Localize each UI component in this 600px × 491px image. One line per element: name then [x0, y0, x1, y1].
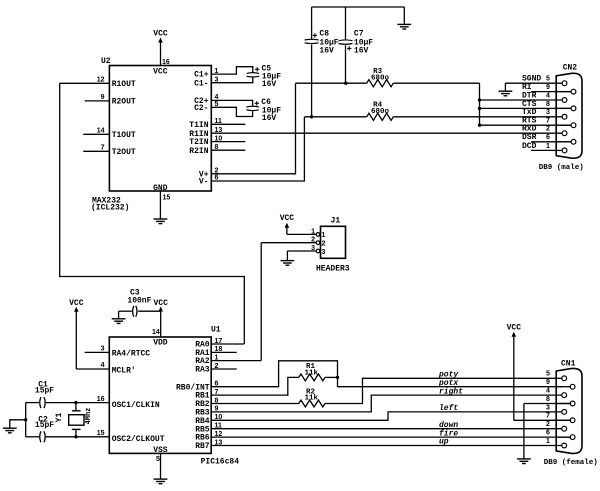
wire C3 ground stem [118, 311, 120, 318]
svg-text:U1: U1 [211, 326, 221, 335]
wire R1 to potx node [325, 376, 338, 378]
svg-text:1: 1 [311, 228, 315, 235]
wire DSR stub to CN2 pin6 [531, 141, 571, 143]
svg-text:15: 15 [97, 430, 105, 437]
wire U2 pin11 T1IN stub [211, 123, 245, 125]
wire U2 pin4 C2+ to C6 [211, 100, 252, 105]
wire CN1 pin8 to ground [523, 404, 525, 459]
wire U1 pin3 RA4 stub [85, 351, 110, 353]
wire R4 to CN2 TxD pin3 [393, 116, 562, 118]
resistor R2 11k [299, 400, 325, 407]
wire U1 RB3 jog to right CN1 pin4 [211, 395, 562, 412]
wire ground stem top right [403, 7, 405, 24]
VCC symbol at U1 MCLR [69, 299, 84, 369]
svg-text:15pF: 15pF [35, 386, 54, 395]
wire U1 RA3 stub [211, 368, 237, 370]
svg-text:5: 5 [546, 371, 550, 378]
wire J1 pin2 to U1 RA2 vertical [260, 243, 262, 361]
svg-text:U2: U2 [101, 57, 111, 66]
wire U2 pin7 T2OUT stub [83, 150, 109, 152]
wire Y1 top stem [75, 403, 77, 411]
svg-text:T2OUT: T2OUT [112, 148, 136, 157]
wire Y1 bottom stem [75, 429, 77, 436]
svg-text:C1-: C1- [194, 79, 208, 88]
wire VDD stem to U1 pin14 [160, 311, 162, 337]
IC U1 PIC16c84 body [109, 337, 211, 453]
capacitor C8 10uF [305, 38, 319, 41]
VCC symbol at CN1 pin7 [507, 324, 522, 421]
wire CTS to CN2 pin8 [480, 107, 572, 109]
wire potx node to CN1 pin9 [338, 386, 563, 388]
svg-text:2: 2 [546, 126, 550, 133]
capacitor C3 100nF [133, 306, 134, 317]
svg-text:1: 1 [322, 232, 326, 239]
node junction DTR [478, 98, 481, 101]
node junction C7 / R3 [344, 82, 347, 85]
svg-text:6: 6 [546, 134, 550, 141]
node junction CTS [478, 107, 481, 110]
wire U1 RB0 jog to potx node [211, 361, 337, 387]
ground at CN1 pin8 [517, 459, 531, 464]
wire DTR to CN2 pin4 [480, 99, 563, 101]
wire left vertical to C1 [26, 402, 39, 404]
svg-text:RA3: RA3 [195, 366, 210, 375]
svg-text:MCLR': MCLR' [112, 366, 136, 375]
svg-text:100nF: 100nF [127, 296, 151, 305]
svg-text:6: 6 [546, 430, 550, 437]
ground below U1 [154, 479, 168, 484]
wire VCC to J1 pin1 [287, 233, 316, 235]
wire J1 pin2 [261, 242, 316, 244]
svg-text:C7: C7 [354, 29, 364, 38]
connector CN2 DB9 male body [556, 73, 582, 158]
svg-text:VCC: VCC [507, 324, 522, 333]
wire U2 pin5 C2- to C6 [211, 107, 252, 116]
svg-text:9: 9 [546, 84, 550, 91]
svg-text:VCC: VCC [153, 67, 168, 76]
node junction R1 / potx [336, 376, 339, 379]
svg-text:VCC: VCC [153, 29, 168, 38]
svg-text:R2OUT: R2OUT [112, 98, 136, 107]
wire V- node to R4 [304, 116, 366, 118]
svg-text:14: 14 [97, 128, 105, 135]
svg-text:left: left [439, 404, 458, 413]
wire ground to CN2 SGND pin5 [505, 82, 562, 84]
svg-text:4: 4 [101, 362, 105, 369]
svg-text:8: 8 [546, 396, 550, 403]
svg-text:16V: 16V [262, 114, 277, 123]
wire RTS to CN2 pin7 [480, 124, 572, 126]
svg-text:16V: 16V [262, 80, 277, 89]
wire RI stub to CN2 pin9 [531, 91, 571, 93]
capacitor C1 15pF [40, 397, 41, 408]
svg-text:VCC: VCC [280, 214, 295, 223]
wire to ground left [10, 420, 26, 428]
wire CN2 SGND to DTR CTS RTS vertical [479, 83, 481, 125]
ground at C3 [112, 319, 126, 324]
svg-text:15pF: 15pF [35, 421, 54, 430]
svg-text:3: 3 [101, 346, 105, 353]
svg-text:R2IN: R2IN [189, 147, 208, 156]
node junction ground tap [24, 418, 27, 421]
svg-text:T1OUT: T1OUT [112, 131, 136, 140]
wire U2 pin1 C1+ to C5 [211, 67, 253, 74]
ground at CN2 SGND [499, 91, 513, 96]
wire left vertical C1 C2 [25, 403, 27, 437]
node junction Y1 top [74, 401, 77, 404]
wire left vertical to C2 [26, 436, 39, 438]
svg-text:11k: 11k [305, 369, 319, 377]
svg-text:VCC: VCC [69, 299, 84, 308]
resistor R4 680o [367, 113, 394, 120]
CN1 pin circles [556, 376, 575, 448]
svg-text:5: 5 [546, 76, 550, 83]
wire U1 RB2 to R2 [211, 403, 299, 405]
wire C2 to U1 OSC2 [46, 436, 110, 438]
svg-text:C2-: C2- [194, 104, 208, 113]
wire U2 pin10 T2IN stub [211, 141, 245, 143]
capacitor C5 10uF [247, 72, 259, 75]
connector CN1 DB9 female body [556, 368, 582, 453]
wire U1 RB6 fire to CN1 pin6 [211, 436, 571, 438]
wire U1 RB5 down to CN1 pin2 [211, 428, 562, 430]
capacitor C7 10uF [339, 39, 353, 42]
svg-text:PIC16c84: PIC16c84 [201, 458, 240, 467]
connector J1 HEADER3 body [321, 226, 346, 258]
svg-text:OSC1/CLKIN: OSC1/CLKIN [112, 401, 160, 410]
svg-text:4: 4 [546, 92, 550, 99]
wire C1 to U1 OSC1 [46, 402, 110, 404]
wire J1 pin3 ground stem [286, 251, 288, 260]
svg-text:3: 3 [546, 404, 550, 411]
wire U1 VSS stem [160, 453, 162, 479]
svg-text:1: 1 [546, 143, 550, 150]
svg-text:15: 15 [163, 195, 171, 202]
wire U1 RB7 up to CN1 pin1 [211, 445, 562, 447]
wire R2 up to poty row CN1 pin5 [325, 378, 562, 403]
svg-text:16: 16 [97, 396, 105, 403]
svg-text:16V: 16V [354, 47, 369, 56]
svg-text:Y1: Y1 [55, 413, 64, 423]
wire C5 to U2 pin3 C1- [211, 78, 253, 83]
svg-text:right: right [439, 387, 463, 396]
wire R3 to DTR/CTS/RTS vertical [393, 82, 479, 84]
svg-text:3: 3 [322, 249, 326, 256]
svg-text:16: 16 [162, 59, 170, 66]
svg-text:(ICL232): (ICL232) [91, 204, 129, 213]
wire V+ node to R3 [296, 82, 367, 84]
ground at crystal caps [3, 428, 17, 433]
svg-text:3: 3 [311, 245, 315, 252]
crystal Y1 [72, 410, 81, 412]
svg-text:7: 7 [546, 118, 550, 125]
svg-text:680o: 680o [371, 74, 390, 82]
svg-text:T1IN: T1IN [189, 121, 208, 130]
svg-text:J1: J1 [331, 217, 341, 226]
wire SGND ground stem [504, 83, 506, 91]
wire ground to C3 [119, 310, 132, 312]
svg-text:7: 7 [101, 145, 105, 152]
svg-text:C8: C8 [319, 29, 329, 38]
svg-text:V-: V- [199, 178, 209, 187]
wire U2 pin15 GND stem [159, 191, 161, 219]
wire J1 pin3 to ground [287, 250, 316, 252]
svg-text:DCD: DCD [522, 142, 537, 151]
svg-text:RB7: RB7 [195, 442, 210, 451]
wire U1 RA0 to routing [211, 343, 244, 345]
J1 pin 1 circle [316, 233, 320, 237]
svg-text:VCC: VCC [153, 299, 168, 308]
svg-text:DB9 (male): DB9 (male) [539, 164, 584, 172]
svg-text:RA4/RTCC: RA4/RTCC [112, 349, 151, 358]
node junction C8 / R4 [310, 115, 313, 118]
capacitor C2 15pF [40, 431, 41, 442]
VCC symbol at J1 pin1 [280, 214, 295, 234]
resistor R3 680o [367, 80, 394, 87]
wire U2 pin14 T1OUT stub [83, 133, 109, 135]
VCC symbol above U2 pin16 [153, 29, 168, 65]
node junction Y1 bottom [74, 435, 77, 438]
wire U1 RA1 stub [211, 351, 237, 353]
J1 pin 2 circle [316, 241, 320, 245]
svg-text:VDD: VDD [153, 338, 168, 347]
svg-text:4: 4 [546, 388, 550, 395]
wire U2 R1OUT to U1 RA0 routing [60, 83, 245, 344]
svg-text:1: 1 [546, 438, 550, 445]
wire VCC to U1 pin4 MCLR [76, 368, 109, 370]
wire DCD stub to CN2 pin1 [531, 149, 562, 151]
capacitor C6 10uF [246, 105, 259, 108]
svg-text:9: 9 [546, 379, 550, 386]
wire top rail down to C7 [345, 7, 347, 39]
wire VCC to CN1 pin7 [514, 419, 571, 421]
VCC symbol at U1 VDD [153, 299, 168, 312]
svg-text:680o: 680o [371, 108, 390, 116]
wire CN1 pin8 row [524, 403, 571, 405]
ground below U2 [154, 219, 168, 224]
svg-text:4Mhz: 4Mhz [85, 408, 93, 425]
wire U2 pin12 R1OUT [60, 82, 110, 84]
wire C3 to VDD node [138, 310, 161, 312]
wire U2 pin8 R2IN stub [211, 149, 245, 151]
wire U2 pin9 R2OUT stub [85, 100, 110, 102]
wire R4 node down to U2 pin6 V- [211, 117, 304, 181]
IC U2 MAX232 (ICL232) body [109, 66, 211, 192]
resistor R1 11k [299, 374, 325, 381]
svg-text:2: 2 [546, 421, 550, 428]
wire top rail C8 C7 to ground [312, 6, 405, 8]
J1 pin 3 circle [316, 249, 320, 253]
ground top right [397, 24, 411, 29]
svg-text:5: 5 [156, 456, 160, 463]
svg-text:CN1: CN1 [561, 359, 576, 368]
svg-text:DB9 (female): DB9 (female) [544, 459, 598, 467]
svg-text:9: 9 [101, 94, 105, 101]
svg-text:12: 12 [97, 77, 105, 84]
ground at J1 pin3 [281, 261, 295, 266]
svg-text:HEADER3: HEADER3 [316, 265, 350, 274]
wire U1 RB1 to R1 [211, 377, 299, 395]
svg-text:16V: 16V [319, 47, 334, 56]
svg-text:11k: 11k [305, 395, 319, 403]
svg-text:2: 2 [311, 237, 315, 244]
CN2 pin circles [556, 81, 576, 153]
svg-text:7: 7 [546, 413, 550, 420]
svg-text:OSC2/CLKOUT: OSC2/CLKOUT [112, 435, 165, 444]
wire C7 down to R3/SGND row [345, 45, 347, 83]
svg-text:3: 3 [546, 109, 550, 116]
wire U1 RB4 jog to left CN1 pin3 [211, 412, 562, 420]
wire R3 node down to U2 pin2 V+ [211, 83, 295, 174]
wire U2 pin13 R1IN to CN2 RxD pin2 [211, 132, 562, 134]
svg-text:8: 8 [546, 101, 550, 108]
wire C8 down to R4/TxD row [311, 45, 313, 117]
node junction RTS [478, 124, 481, 127]
svg-text:R1OUT: R1OUT [112, 80, 136, 89]
svg-text:14: 14 [152, 329, 160, 336]
svg-text:CN2: CN2 [563, 64, 578, 73]
wire U1 RA2 to J1 vertical [211, 360, 261, 362]
svg-text:2: 2 [322, 241, 326, 248]
svg-text:up: up [439, 438, 449, 447]
wire top rail down to C8 [311, 7, 313, 39]
